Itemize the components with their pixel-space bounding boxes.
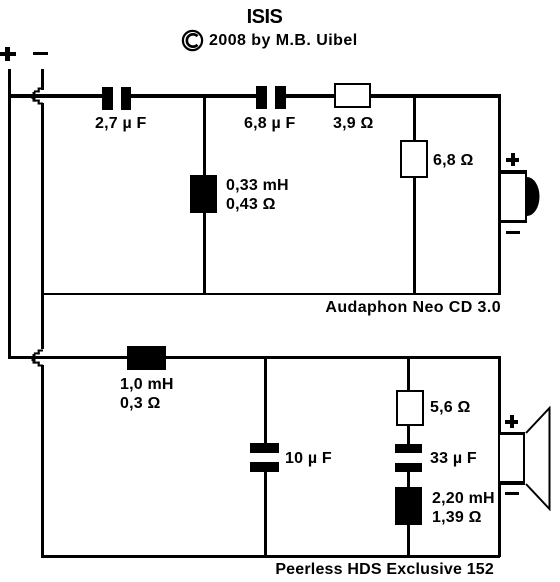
capacitor C2 6,8uF plates [256, 86, 267, 109]
hop junction bottom (crossover of - wire over circuit2 rail) [28, 346, 48, 372]
wire bottom rail circuit1 [41, 293, 501, 295]
capacitor C4 33uF plates [395, 444, 422, 453]
wire top rail circuit2 [8, 356, 500, 360]
input terminal minus symbol [33, 52, 48, 55]
inductor L1 0,33mH [190, 175, 217, 213]
value label C1 [95, 114, 147, 133]
wire gap mask C1 [113, 94, 121, 98]
woofer driver symbol [500, 432, 525, 484]
label Peerless HDS Exclusive 152 [0, 560, 494, 579]
resistor R3 5,6 ohm [396, 390, 424, 426]
resistor R2 6,8 ohm [400, 140, 428, 178]
resistor R1 3,9 ohm [334, 83, 371, 108]
value label C4 [430, 449, 477, 468]
wire - return vertical lower [41, 365, 44, 558]
value label C2 [244, 114, 296, 133]
node A branch wire [203, 97, 206, 294]
wire gap mask C2 [267, 94, 275, 98]
wire - return vertical middle [41, 103, 44, 349]
woofer terminal plus [505, 420, 518, 424]
wire gap mask C3 [263, 453, 268, 462]
wire top rail circuit1 [8, 94, 500, 98]
value label C3 [285, 449, 332, 468]
wire right vertical circuit1 [498, 94, 501, 294]
woofer terminal minus [505, 492, 519, 495]
tweeter terminal minus [506, 231, 520, 234]
tweeter terminal plus [506, 158, 519, 162]
value label R1 [333, 114, 374, 133]
tweeter driver symbol [501, 170, 528, 223]
inductor L3 2,20mH [395, 487, 422, 525]
inductor L2 1,0mH [127, 346, 166, 370]
value label L2 [120, 375, 174, 413]
wire + feed vertical [8, 69, 11, 359]
node D branch wire [407, 358, 410, 556]
capacitor C1 2,7uF plates [102, 87, 113, 110]
wire right vertical circuit2 [498, 356, 501, 557]
node C branch wire [264, 358, 267, 556]
hop junction top (crossover of - wire over + rail) [28, 84, 48, 110]
title ISIS [0, 8, 529, 27]
value label L1 [226, 176, 289, 214]
label Audaphon Neo CD 3.0 [0, 298, 501, 317]
input terminal plus symbol [0, 52, 16, 56]
wire - return vertical upper [41, 69, 44, 90]
woofer cone [525, 406, 553, 511]
tweeter dome [527, 177, 541, 217]
wire gap mask C4 [406, 453, 411, 463]
value label R3 [430, 398, 471, 417]
wire bottom rail circuit2 [41, 555, 500, 558]
value label R2 [433, 151, 474, 170]
copyright line [181, 27, 441, 53]
value label L3 [432, 489, 495, 527]
capacitor C3 10uF plates [250, 443, 279, 453]
node B branch wire [413, 97, 416, 294]
